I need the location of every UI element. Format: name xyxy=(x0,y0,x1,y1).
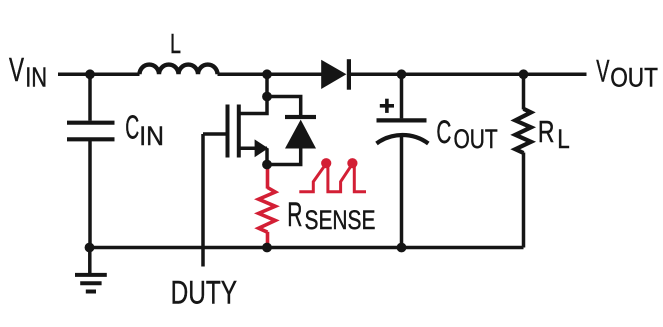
svg-text:IN: IN xyxy=(139,121,164,151)
wire: body diode D2 anode to node G xyxy=(267,148,301,165)
wire: RL to bottom rail corner xyxy=(522,153,526,248)
diode D1 xyxy=(321,59,351,89)
label COUT xyxy=(436,113,497,154)
svg-text:V: V xyxy=(596,52,609,88)
wire: node G to RSENSE (red) xyxy=(266,165,270,189)
svg-text:L: L xyxy=(557,124,570,154)
node H (RSENSE to rail) xyxy=(262,243,272,253)
label RL xyxy=(538,114,570,154)
node F (drain junction) xyxy=(262,92,272,102)
wire: bottom ground rail xyxy=(90,246,524,250)
svg-text:V: V xyxy=(9,51,24,88)
inductor L xyxy=(140,65,218,75)
wire: node A to inductor xyxy=(90,73,140,77)
wire: VIN terminal to node A xyxy=(58,73,90,77)
svg-text:C: C xyxy=(436,113,451,150)
capacitor COUT (polarized) xyxy=(377,120,429,143)
node I (COUT to rail) xyxy=(397,243,407,253)
wire: node F to body diode D2 cathode xyxy=(267,97,301,117)
plus sign (COUT polarity) xyxy=(380,99,394,113)
label RSENSE xyxy=(287,196,375,235)
svg-text:C: C xyxy=(125,108,139,145)
wire: node F to Q1 drain xyxy=(240,97,267,114)
wire: node D to VOUT terminal xyxy=(523,73,587,77)
wire: COUT bottom plate to node I xyxy=(400,134,404,248)
svg-text:IN: IN xyxy=(25,62,47,93)
wire: node B to diode D1 anode xyxy=(267,73,323,77)
svg-text:OUT: OUT xyxy=(610,63,658,93)
wire: inductor to node B xyxy=(218,73,268,77)
wire: RSENSE to node H (red) xyxy=(266,232,270,247)
svg-text:R: R xyxy=(538,114,555,149)
wire: node A down to CIN top plate xyxy=(88,74,92,120)
resistor RSENSE (red) xyxy=(259,188,276,233)
wire: node C down to COUT top plate xyxy=(400,74,404,118)
transistor Q1 (NMOS switch) xyxy=(203,105,267,164)
svg-text:R: R xyxy=(287,196,302,234)
node D (RL junction) xyxy=(519,69,529,79)
current sense waveform icon (red) xyxy=(299,164,366,191)
node C (COUT junction) xyxy=(397,69,407,79)
label VOUT xyxy=(596,52,658,92)
wire: diode D1 cathode to node C xyxy=(349,73,402,77)
resistor RL xyxy=(515,109,531,153)
Q1 source arrow xyxy=(255,139,269,157)
wire: node D down to RL xyxy=(522,74,526,109)
node E (ground rail left) xyxy=(85,243,95,253)
wire: gate line down to DUTY xyxy=(201,134,205,267)
waveform peak dots (red) xyxy=(321,158,357,168)
wire: node B down to node F xyxy=(265,74,269,96)
wire: node C to node D xyxy=(402,73,524,77)
label VIN xyxy=(9,51,47,93)
node B (switch node) xyxy=(262,69,272,79)
svg-text:OUT: OUT xyxy=(454,124,498,154)
label CIN xyxy=(125,108,164,151)
capacitor CIN xyxy=(67,123,115,140)
svg-text:DUTY: DUTY xyxy=(171,275,237,311)
ground xyxy=(75,248,107,292)
svg-text:SENSE: SENSE xyxy=(305,205,376,235)
node A (VIN junction) xyxy=(85,69,95,79)
node G (source/sense junction) xyxy=(262,160,272,170)
body diode D2 xyxy=(285,115,316,149)
svg-text:L: L xyxy=(170,28,181,59)
wire: CIN bottom plate to node E xyxy=(88,139,92,247)
